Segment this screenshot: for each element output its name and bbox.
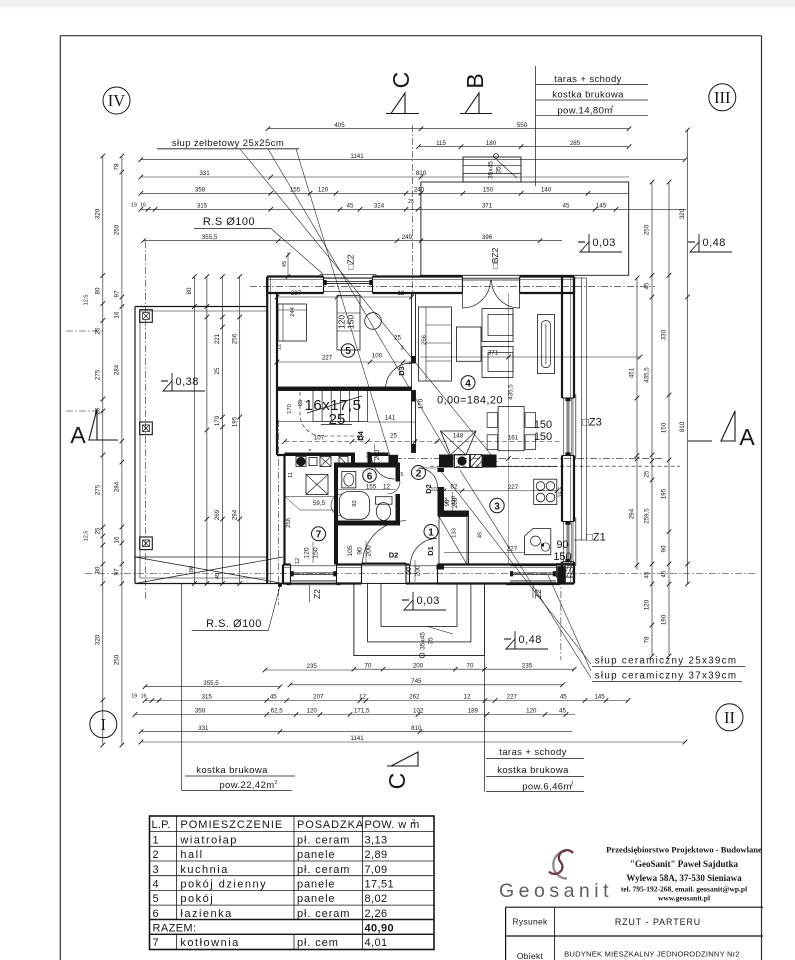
- svg-text:2: 2: [153, 849, 160, 861]
- svg-text:≠: ≠: [309, 448, 312, 454]
- svg-text:120: 120: [318, 187, 329, 194]
- svg-text:275: 275: [95, 369, 102, 380]
- svg-text:panele: panele: [297, 849, 335, 861]
- svg-text:115: 115: [436, 140, 446, 147]
- svg-text:0,48: 0,48: [703, 237, 726, 249]
- svg-text:□Z2: □Z2: [346, 254, 356, 269]
- svg-text:25,5: 25,5: [559, 486, 565, 497]
- svg-text:235: 235: [522, 662, 533, 669]
- svg-text:kuchnia: kuchnia: [180, 864, 228, 876]
- svg-text:315: 315: [202, 694, 213, 701]
- svg-text:150: 150: [313, 547, 320, 559]
- svg-text:358: 358: [195, 708, 206, 715]
- svg-text:kostka brukowa: kostka brukowa: [196, 765, 268, 776]
- svg-text:2: 2: [571, 782, 574, 788]
- svg-text:171,5: 171,5: [354, 708, 370, 715]
- svg-text:227: 227: [507, 545, 518, 552]
- svg-text:82: 82: [451, 484, 458, 491]
- svg-text:tel. 795-192-268, email. geosa: tel. 795-192-268, email. geosanit@wp.pl: [621, 885, 747, 894]
- svg-text:258: 258: [286, 518, 292, 528]
- svg-text:244: 244: [290, 306, 296, 316]
- svg-text:190: 190: [661, 614, 668, 625]
- svg-text:słup ceramiczny 25x39cm: słup ceramiczny 25x39cm: [595, 656, 738, 667]
- svg-text:148: 148: [453, 433, 464, 440]
- svg-text:C: C: [388, 72, 414, 89]
- svg-text:45: 45: [347, 203, 354, 210]
- svg-text:45: 45: [270, 694, 277, 701]
- svg-text:0,00=184,20: 0,00=184,20: [437, 395, 503, 407]
- svg-text:396: 396: [482, 234, 493, 241]
- svg-text:275: 275: [95, 484, 102, 495]
- svg-text:pokój: pokój: [180, 893, 214, 905]
- svg-text:120: 120: [526, 708, 537, 715]
- svg-text:RZUT - PARTERU: RZUT - PARTERU: [615, 917, 701, 927]
- svg-text:550: 550: [517, 122, 528, 129]
- svg-text:269: 269: [214, 509, 221, 520]
- svg-text:80: 80: [95, 566, 102, 573]
- svg-text:2,26: 2,26: [365, 908, 388, 920]
- svg-text:331: 331: [199, 170, 210, 177]
- svg-text:810: 810: [679, 421, 686, 432]
- svg-text:161: 161: [508, 435, 519, 442]
- svg-text:www.geosanit.pl: www.geosanit.pl: [658, 894, 710, 903]
- svg-text:256: 256: [422, 335, 428, 345]
- svg-text:19: 19: [131, 694, 137, 700]
- svg-text:pow.14,80m: pow.14,80m: [557, 106, 612, 117]
- svg-text:200: 200: [366, 545, 373, 557]
- svg-text:POMIESZCZENIE: POMIESZCZENIE: [180, 819, 283, 831]
- svg-text:35: 35: [496, 166, 503, 174]
- svg-text:45: 45: [644, 282, 651, 289]
- svg-text:11: 11: [288, 472, 294, 478]
- svg-text:A: A: [70, 422, 86, 448]
- svg-text:221: 221: [214, 333, 221, 344]
- svg-text:70: 70: [365, 662, 372, 669]
- svg-text:45: 45: [560, 694, 567, 701]
- svg-text:140: 140: [541, 187, 552, 194]
- svg-text:Przedsiębiorstwo Projektowo -: Przedsiębiorstwo Projektowo - Budowlane: [606, 845, 762, 855]
- svg-text:324: 324: [374, 203, 385, 210]
- svg-text:C: C: [384, 773, 410, 790]
- svg-text:227: 227: [322, 355, 333, 362]
- svg-text:19: 19: [131, 203, 137, 209]
- svg-text:1141: 1141: [350, 735, 364, 742]
- svg-text:słup ceramiczny 37x39cm: słup ceramiczny 37x39cm: [595, 671, 738, 682]
- svg-text:panele: panele: [297, 879, 335, 891]
- svg-text:taras + schody: taras + schody: [554, 74, 622, 85]
- svg-text:189: 189: [468, 708, 479, 715]
- svg-text:180: 180: [486, 140, 497, 147]
- svg-text:Rysunek: Rysunek: [512, 917, 548, 927]
- svg-text:12: 12: [277, 344, 283, 350]
- svg-text:133: 133: [452, 528, 458, 538]
- svg-text:150: 150: [661, 422, 668, 433]
- svg-text:4,01: 4,01: [365, 937, 388, 949]
- svg-text:207: 207: [313, 694, 324, 701]
- svg-text:3,13: 3,13: [365, 834, 388, 846]
- svg-text:POSADZKA: POSADZKA: [297, 819, 364, 831]
- svg-text:107: 107: [314, 435, 325, 442]
- svg-text:35: 35: [428, 637, 435, 645]
- svg-text:195: 195: [661, 488, 668, 499]
- svg-text:3: 3: [400, 346, 403, 352]
- svg-text:150: 150: [483, 187, 494, 194]
- svg-text:45: 45: [644, 571, 651, 578]
- svg-text:3: 3: [494, 501, 500, 512]
- svg-text:195: 195: [231, 416, 238, 427]
- svg-text:0,03: 0,03: [417, 595, 440, 607]
- svg-text:285: 285: [570, 140, 581, 147]
- svg-text:227: 227: [507, 694, 518, 701]
- svg-text:3: 3: [153, 864, 160, 876]
- svg-text:25: 25: [95, 527, 102, 534]
- svg-text:320: 320: [95, 208, 102, 219]
- svg-text:Wylewa 58A, 37-530 Sieniawa: Wylewa 58A, 37-530 Sieniawa: [626, 873, 742, 883]
- svg-text:17,51: 17,51: [365, 879, 395, 891]
- svg-text:wiatrołap: wiatrołap: [179, 834, 238, 846]
- svg-text:I: I: [101, 715, 107, 734]
- svg-text:170: 170: [418, 398, 425, 409]
- svg-text:150: 150: [534, 431, 552, 443]
- svg-text:35x45: 35x45: [488, 161, 495, 179]
- svg-text:taras + schody: taras + schody: [499, 747, 567, 758]
- svg-text:RAZEM:: RAZEM:: [153, 922, 197, 934]
- svg-text:16: 16: [141, 694, 147, 700]
- svg-text:371: 371: [482, 203, 493, 210]
- svg-text:155: 155: [290, 187, 301, 194]
- svg-text:355,5: 355,5: [202, 234, 218, 241]
- svg-text:2: 2: [275, 780, 278, 786]
- svg-text:170: 170: [214, 415, 221, 426]
- svg-text:Geosanit: Geosanit: [499, 880, 613, 902]
- svg-text:451: 451: [629, 367, 636, 378]
- svg-text:pow.6,46m: pow.6,46m: [522, 782, 572, 793]
- svg-text:97: 97: [114, 290, 121, 297]
- svg-text:70: 70: [467, 662, 474, 669]
- svg-text:IV: IV: [108, 91, 125, 110]
- svg-text:810: 810: [416, 170, 427, 177]
- svg-text:249: 249: [402, 234, 413, 241]
- svg-text:6: 6: [153, 908, 160, 920]
- svg-text:Z2: Z2: [312, 589, 322, 599]
- svg-text:25: 25: [394, 335, 401, 342]
- svg-text:59,5: 59,5: [313, 500, 326, 507]
- svg-text:8,02: 8,02: [365, 893, 388, 905]
- svg-text:150: 150: [553, 551, 571, 563]
- svg-text:12,5: 12,5: [84, 295, 90, 306]
- svg-text:200: 200: [415, 565, 422, 577]
- svg-text:120: 120: [307, 708, 318, 715]
- svg-text:1141: 1141: [350, 153, 364, 160]
- svg-text:panele: panele: [297, 893, 335, 905]
- svg-text:150: 150: [346, 315, 356, 329]
- svg-text:Obiekt: Obiekt: [517, 951, 544, 960]
- svg-text:92: 92: [352, 500, 358, 506]
- svg-text:12: 12: [397, 290, 404, 297]
- svg-text:5: 5: [345, 346, 351, 357]
- svg-text:2: 2: [416, 468, 422, 479]
- svg-text:II: II: [724, 708, 735, 727]
- svg-text:A: A: [739, 424, 755, 450]
- svg-text:90: 90: [357, 547, 364, 555]
- svg-text:25: 25: [95, 407, 102, 414]
- svg-text:105: 105: [347, 545, 354, 557]
- svg-text:97: 97: [114, 568, 121, 575]
- svg-text:2: 2: [611, 106, 614, 112]
- svg-text:227: 227: [508, 484, 519, 491]
- svg-text:145: 145: [596, 203, 607, 210]
- svg-text:256: 256: [231, 333, 238, 344]
- svg-text:405: 405: [334, 122, 345, 129]
- svg-text:80: 80: [189, 566, 195, 572]
- svg-text:pł. ceram: pł. ceram: [297, 834, 350, 846]
- svg-text:kotłownia: kotłownia: [180, 937, 239, 949]
- svg-text:5: 5: [401, 472, 404, 478]
- svg-text:□BZ2: □BZ2: [490, 247, 500, 268]
- svg-text:100: 100: [372, 353, 383, 360]
- svg-text:145: 145: [594, 694, 605, 701]
- svg-text:358: 358: [195, 187, 206, 194]
- svg-text:102: 102: [430, 487, 439, 493]
- svg-text:78: 78: [114, 163, 121, 170]
- svg-text:102: 102: [413, 708, 424, 715]
- svg-text:745: 745: [411, 678, 422, 685]
- svg-text:40,90: 40,90: [365, 922, 395, 934]
- svg-text:262: 262: [409, 694, 420, 701]
- svg-text:□Z1: □Z1: [586, 532, 605, 544]
- svg-text:"GeoSanit" Paweł Sajdutka: "GeoSanit" Paweł Sajdutka: [630, 859, 739, 869]
- svg-text:25: 25: [390, 433, 397, 440]
- svg-text:80: 80: [186, 287, 193, 294]
- svg-text:7: 7: [316, 530, 322, 541]
- svg-text:150: 150: [534, 419, 552, 431]
- svg-text:7: 7: [153, 937, 159, 949]
- svg-text:16: 16: [114, 536, 121, 543]
- svg-text:35x45: 35x45: [420, 632, 427, 650]
- svg-text:R.S Ø100: R.S Ø100: [203, 216, 255, 228]
- svg-text:7,09: 7,09: [365, 864, 388, 876]
- svg-text:294: 294: [231, 509, 238, 520]
- svg-text:1: 1: [153, 834, 160, 846]
- svg-text:pokój dzienny: pokój dzienny: [180, 879, 267, 891]
- svg-text:D3: D3: [397, 366, 406, 376]
- svg-text:25: 25: [644, 470, 651, 477]
- svg-text:250: 250: [114, 224, 121, 235]
- svg-text:284: 284: [114, 364, 121, 375]
- svg-text:170: 170: [287, 404, 293, 414]
- svg-text:78: 78: [644, 636, 651, 643]
- svg-text:12,5: 12,5: [84, 531, 90, 542]
- svg-text:słup żelbetowy 25x25cm: słup żelbetowy 25x25cm: [172, 138, 284, 149]
- svg-text:355,5: 355,5: [203, 680, 219, 687]
- svg-text:pł. ceram: pł. ceram: [297, 908, 350, 920]
- svg-text:12: 12: [464, 694, 471, 701]
- svg-text:25: 25: [408, 199, 414, 205]
- svg-text:4: 4: [153, 879, 160, 891]
- svg-text:hall: hall: [180, 849, 203, 861]
- svg-text:85: 85: [298, 400, 304, 406]
- svg-text:320: 320: [95, 634, 102, 645]
- svg-text:Z2: Z2: [533, 589, 543, 599]
- svg-text:12: 12: [359, 694, 366, 701]
- svg-text:25: 25: [95, 327, 102, 334]
- svg-text:294: 294: [629, 508, 636, 519]
- svg-text:5: 5: [153, 893, 160, 905]
- svg-text:pł. ceram: pł. ceram: [297, 864, 350, 876]
- svg-text:284: 284: [114, 481, 121, 492]
- svg-text:BUDYNEK MIESZKALNY JEDNORODZIN: BUDYNEK MIESZKALNY JEDNORODZINNY Nr2: [564, 950, 740, 959]
- svg-text:45: 45: [282, 261, 288, 267]
- svg-text:80: 80: [366, 451, 373, 458]
- svg-text:D1: D1: [426, 546, 435, 556]
- svg-text:D2: D2: [389, 551, 399, 560]
- svg-text:45: 45: [559, 708, 566, 715]
- svg-text:III: III: [714, 88, 730, 107]
- svg-text:6: 6: [367, 471, 373, 482]
- svg-text:435,5: 435,5: [644, 367, 651, 383]
- svg-text:0,48: 0,48: [519, 634, 542, 646]
- svg-text:4: 4: [465, 378, 471, 389]
- svg-text:□Z3: □Z3: [582, 417, 601, 429]
- svg-text:B: B: [462, 73, 488, 88]
- svg-text:320: 320: [679, 208, 686, 219]
- svg-text:337: 337: [291, 290, 302, 297]
- svg-text:62,5: 62,5: [271, 708, 284, 715]
- svg-text:810: 810: [411, 725, 422, 732]
- svg-text:235: 235: [307, 663, 318, 670]
- svg-text:0,38: 0,38: [176, 376, 199, 388]
- svg-text:R.S. Ø100: R.S. Ø100: [206, 618, 262, 630]
- svg-text:12: 12: [295, 558, 301, 564]
- svg-text:200: 200: [413, 662, 424, 669]
- svg-text:371: 371: [488, 350, 499, 357]
- svg-text:110: 110: [451, 496, 457, 505]
- svg-text:92: 92: [357, 435, 364, 442]
- svg-text:250: 250: [644, 224, 651, 235]
- svg-text:25: 25: [214, 367, 221, 374]
- svg-text:80: 80: [95, 287, 102, 294]
- svg-text:0,03: 0,03: [593, 237, 616, 249]
- svg-text:pł. cem: pł. cem: [297, 937, 339, 949]
- svg-text:120: 120: [304, 547, 311, 559]
- svg-text:łazienka: łazienka: [180, 908, 232, 920]
- svg-text:12: 12: [443, 497, 449, 503]
- svg-text:259,5: 259,5: [644, 508, 651, 524]
- svg-text:16: 16: [140, 203, 146, 209]
- svg-text:90: 90: [406, 567, 413, 575]
- svg-text:120: 120: [644, 599, 651, 610]
- svg-text:45: 45: [563, 203, 570, 210]
- svg-text:141: 141: [385, 415, 396, 422]
- svg-text:331: 331: [198, 725, 209, 732]
- svg-text:16: 16: [114, 311, 121, 318]
- svg-text:kostka brukowa: kostka brukowa: [497, 765, 569, 776]
- svg-text:90: 90: [661, 545, 668, 552]
- svg-text:L.P.: L.P.: [152, 819, 171, 831]
- svg-text:pow.22,42m: pow.22,42m: [219, 780, 274, 791]
- svg-text:kostka brukowa: kostka brukowa: [552, 90, 624, 101]
- svg-text:250: 250: [114, 654, 121, 665]
- svg-text:90: 90: [556, 539, 568, 551]
- svg-text:1: 1: [428, 527, 434, 538]
- svg-text:240: 240: [414, 187, 425, 194]
- svg-text:315: 315: [197, 203, 208, 210]
- svg-text:45: 45: [478, 532, 484, 538]
- svg-text:330: 330: [661, 329, 668, 340]
- svg-text:25: 25: [329, 411, 346, 428]
- svg-text:2,89: 2,89: [365, 849, 388, 861]
